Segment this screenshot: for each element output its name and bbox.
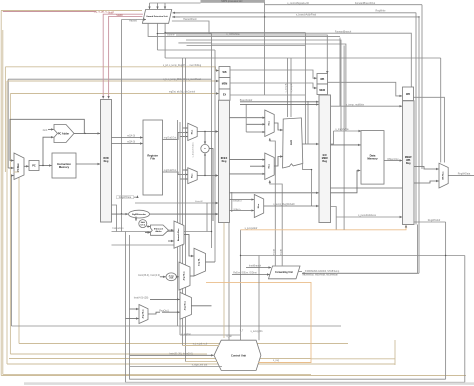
- wire RegWrData feedback right vertical: [464, 256, 466, 383]
- svg-text:Wb Mux: Wb Mux: [443, 171, 445, 180]
- wire hazard flush out: [172, 21, 411, 90]
- wire riser x207: [206, 203, 208, 232]
- svg-text:WB: WB: [406, 93, 410, 96]
- svg-text:RegWrite: RegWrite: [376, 10, 387, 13]
- instruction memory: [52, 153, 76, 178]
- wire fwd unit out right: [298, 271, 302, 273]
- wire x344 vertical: [343, 46, 345, 230]
- svg-text:Hazard Detection Unit: Hazard Detection Unit: [146, 15, 168, 18]
- svg-text:s_f: s_f: [240, 329, 244, 332]
- wire control loop left vertical 2: [2, 30, 4, 374]
- svg-text:FwdB: FwdB: [280, 249, 282, 255]
- svg-text:Jmp SL: Jmp SL: [199, 258, 201, 267]
- jump mux: [179, 262, 190, 290]
- wire bottom beige y354 into control unit: [10, 353, 207, 355]
- wire RegWrite top y12: [173, 12, 416, 14]
- wire bottom beige y364: [7, 363, 395, 365]
- svg-text:Jmp Mux: Jmp Mux: [184, 270, 186, 280]
- wire y245 bundle: [112, 244, 184, 246]
- wire into EXMEM y101: [240, 101, 319, 103]
- register file: [143, 120, 163, 195]
- wire RegWrAddr feedback right vertical: [445, 222, 447, 379]
- wire fwdmuxA in3: [180, 136, 187, 138]
- register PC: [29, 161, 39, 171]
- wire control loop left vertical 4: [6, 81, 8, 364]
- PC adder: [54, 125, 74, 143]
- svg-text:PC Adder: PC Adder: [58, 133, 69, 136]
- wire row y361.6: [186, 361, 218, 363]
- svg-text:Reg: Reg: [104, 160, 109, 163]
- wire EX row out: [230, 94, 305, 96]
- hazard detection unit U_HAZ: [142, 10, 171, 24]
- wire pcsrc in1: [150, 298, 180, 300]
- wire ctrl EX row beige: [10, 93, 218, 95]
- svg-text:s_sign_ext out: s_sign_ext out: [192, 364, 208, 367]
- svg-text:32BitAnd: 32BitAnd: [233, 200, 243, 203]
- wire ALU result bypass to MEMWB: [331, 187, 403, 189]
- svg-text:WB: WB: [223, 71, 227, 74]
- wire control loop left vertical 3: [4, 67, 6, 172]
- wire EXMEM wb to MEMWB wb: [328, 82, 403, 96]
- wire adder to branch mux: [169, 229, 174, 231]
- wire x420.6 vertical: [415, 13, 417, 225]
- wire x424 vertical: [421, 5, 423, 169]
- forward mux A: [188, 123, 197, 140]
- wire y229.8 to MEMWB bottom: [241, 225, 407, 230]
- svg-text:Bubble: Bubble: [167, 34, 175, 37]
- svg-text:s_temp_regWrite: s_temp_regWrite: [346, 103, 365, 106]
- sign extender: [129, 210, 150, 218]
- wire regfile out2: [163, 172, 188, 175]
- wire s_controlSignals top y4.7: [265, 4, 422, 6]
- wire MEMWB to wbmux in2: [414, 181, 439, 183]
- wire fwdmuxB into comparator: [204, 153, 206, 175]
- jump shift ellipse: [166, 273, 176, 281]
- wire control instr input: [130, 354, 214, 356]
- wire s_temp into MEM/WB top: [331, 105, 403, 107]
- wire bottom beige y343: [19, 343, 348, 345]
- wire WB box out right y95: [414, 97, 445, 162]
- svg-text:s_controlSignals+36: s_controlSignals+36: [287, 2, 309, 5]
- wire ALU out up branch: [307, 101, 309, 144]
- wire nest rect1 corner: [178, 42, 211, 44]
- svg-text:s_tempA: s_tempA: [285, 83, 288, 92]
- wire nest y40: [186, 40, 341, 131]
- wire fwdmuxA into comparator: [204, 132, 206, 145]
- svg-text:RsEns, IDExe, IDDest: RsEns, IDExe, IDDest: [233, 272, 257, 275]
- wire WB row across: [230, 70, 317, 78]
- wire x333.5 drop: [331, 131, 334, 144]
- wire jmp mux out: [190, 275, 194, 277]
- wire x287.5 vertical rotated label: [287, 58, 289, 117]
- svg-text:File: File: [150, 157, 155, 161]
- wire pcsrc out: [191, 305, 211, 307]
- svg-text:Reg: Reg: [222, 160, 227, 163]
- wire row y335: [180, 334, 241, 336]
- RegDst mux: [254, 195, 263, 218]
- wire bottom beige y374.4: [1, 375, 466, 377]
- wire nest x215: [214, 50, 216, 262]
- wire bottom beige y371: [3, 373, 311, 375]
- wire ctrl EX row into ID/EX: [8, 78, 211, 80]
- svg-text:Adder: Adder: [155, 230, 161, 233]
- wire regfile out1: [163, 133, 188, 140]
- wire adder out to IF/ID: [74, 132, 100, 134]
- svg-text:Branch Mux: Branch Mux: [178, 228, 180, 241]
- wire bottom gray bus outer: [126, 232, 465, 383]
- svg-text:regOut2Out: regOut2Out: [164, 169, 177, 172]
- wire MEMWB regwraddr out: [414, 221, 446, 223]
- node junction dots: [42, 16, 446, 256]
- control unit: [214, 340, 261, 370]
- svg-text:Control Unit: Control Unit: [231, 353, 246, 357]
- wire hazard bottom drop 1: [148, 23, 340, 36]
- wire vertical bundle x180: [179, 122, 181, 335]
- wire bottom beige y358.5: [9, 358, 311, 360]
- wire EXMEM to DM addr: [331, 144, 361, 146]
- wire DM out: [384, 160, 402, 162]
- wire top beige control band: [1, 10, 142, 12]
- svg-text:Instr(31-26), Instr(5-0): Instr(31-26), Instr(5-0): [169, 352, 193, 355]
- wire into sign extender: [112, 213, 129, 215]
- wire x417 vertical down to y273: [418, 17, 420, 274]
- svg-text:ForwardBranchOut: ForwardBranchOut: [355, 2, 376, 5]
- svg-text:RegWrAddr: RegWrAddr: [428, 219, 441, 222]
- svg-text:FwdA: FwdA: [272, 249, 275, 255]
- svg-text:s_regDst: s_regDst: [181, 333, 191, 336]
- svg-text:shift: shift: [169, 277, 174, 280]
- svg-text:Reg: Reg: [406, 162, 411, 165]
- wire idex side tap: [231, 192, 233, 212]
- svg-text:HazardFlush: HazardFlush: [183, 18, 197, 21]
- svg-text:MIPS processor.circ: MIPS processor.circ: [221, 0, 243, 3]
- wire adder feedback to PC mux: [10, 119, 84, 160]
- svg-text:Extra32: Extra32: [195, 200, 203, 203]
- forward mux B: [188, 168, 197, 184]
- top title bar: [201, 0, 266, 3]
- shift left circle: [139, 220, 147, 228]
- wire pcsrc in2: [162, 311, 180, 313]
- svg-text:PC Mux: PC Mux: [18, 163, 20, 172]
- wire x305.4 vertical: [304, 33, 306, 145]
- svg-text:Reg: Reg: [322, 160, 327, 163]
- wire small mux out: [148, 312, 160, 314]
- wire IM out to IF/ID: [76, 163, 100, 165]
- wire red StallF: [103, 14, 143, 98]
- svg-text:s_temp_RegWrAddr: s_temp_RegWrAddr: [273, 203, 295, 206]
- wire beige below IDEX bar: [223, 223, 225, 338]
- wire fwdmuxB in3: [180, 178, 187, 180]
- pipeline register IF/ID: [101, 100, 112, 223]
- svg-text:WB: WB: [320, 78, 324, 81]
- wire control unit up into IDEX bottom: [228, 223, 230, 340]
- op-amp style ALU: [283, 118, 303, 168]
- wire ALUmuxA inputs: [230, 117, 265, 119]
- wire control s_reg orange out: [206, 282, 311, 362]
- svg-text:s_branchAddrFinal: s_branchAddrFinal: [296, 14, 317, 17]
- wire x240.5 riser: [240, 230, 242, 340]
- wire ALU bottom corner down: [303, 163, 312, 206]
- wire pc into adder: [145, 232, 150, 234]
- wire fwdmuxA in2: [183, 127, 188, 129]
- svg-text:MEM: MEM: [222, 82, 228, 85]
- svg-text:rs2[4:0]: rs2[4:0]: [127, 141, 135, 144]
- wire forward A selector: [270, 138, 276, 265]
- wire x264.5 vertical: [264, 3, 266, 96]
- wire y255.5 long horizontal: [241, 255, 465, 257]
- wire small mux in2: [126, 318, 139, 320]
- svg-text:StallD: StallD: [116, 14, 123, 17]
- svg-text:Jmp Mux: Jmp Mux: [185, 300, 187, 310]
- wire PCmux to PC: [24, 165, 29, 167]
- svg-text:ALU: ALU: [289, 140, 293, 145]
- wire nest rect2 corner: [187, 45, 306, 47]
- data memory: [361, 131, 384, 185]
- svg-text:Memory: Memory: [367, 157, 378, 161]
- wire const 4 into adder: [48, 128, 54, 130]
- wire gray branch feedback vertical: [7, 79, 9, 168]
- wire rs2 into regfile: [112, 143, 143, 145]
- svg-text:RegWrData: RegWrData: [458, 173, 471, 176]
- wire PC up to adder: [43, 137, 54, 165]
- svg-text:Sign Extender: Sign Extender: [132, 213, 146, 216]
- svg-text:EX: EX: [223, 94, 227, 97]
- svg-text:RegOut1: RegOut1: [159, 309, 169, 312]
- svg-text:rs1[4:0]: rs1[4:0]: [127, 135, 135, 138]
- svg-text:s_jumpAddr: s_jumpAddr: [245, 227, 258, 230]
- svg-text:Forwarding Unit: Forwarding Unit: [275, 271, 293, 274]
- wire fwd unit in2: [232, 274, 270, 276]
- MEM/WB control box WB: [403, 87, 414, 101]
- wire ALU out: [302, 143, 318, 145]
- wire regdst in1: [230, 199, 254, 201]
- wire IF/ID instr down x116.5: [112, 205, 117, 232]
- wire hazard top in 3: [164, 3, 166, 9]
- branch adder: [151, 225, 169, 235]
- wire shift to adder: [147, 226, 150, 228]
- wire s_temp_Rs riser: [258, 256, 260, 341]
- svg-text:Instruction: Instruction: [112, 227, 124, 230]
- wire beige x10.4: [9, 94, 11, 355]
- wire s_branchAddrFinal y16.5: [172, 16, 419, 18]
- wire regdst in2: [230, 210, 254, 212]
- wire bottom gray bus inner: [130, 235, 446, 379]
- wire MEM row across: [230, 83, 317, 88]
- wire ctrl WB row into ID/EX: [5, 67, 218, 71]
- wire hazard bottom drop 2: [157, 23, 211, 33]
- wire IF/ID instr down x121.5: [121, 20, 123, 232]
- EX/MEM control boxes: [317, 74, 328, 95]
- wire comparator out: [209, 149, 213, 221]
- svg-text:s_penultAddress: s_penultAddress: [358, 214, 377, 217]
- wire control to beige riser: [311, 358, 395, 360]
- wire jump shift to jmp mux: [176, 276, 178, 278]
- wire rs1 into regfile: [112, 137, 143, 139]
- svg-text:s_j, s_jal, s_b: s_j, s_jal, s_b: [193, 343, 208, 346]
- wire vertical bundle x177.5: [177, 120, 179, 326]
- wire nest y44 riser x348: [212, 44, 346, 131]
- wire fwdmuxB out to IDEX: [197, 175, 218, 177]
- wire sign extender out to IDEX: [150, 213, 219, 215]
- wire y231.5 bundle: [112, 231, 212, 233]
- wire forward B selector: [270, 180, 282, 265]
- wire y55.3 to WB mux riser: [440, 58, 442, 163]
- wire MEMWB to wbmux in1: [414, 167, 439, 170]
- svg-text:s_jal: s_jal: [227, 335, 232, 338]
- wire wbmux out: [448, 175, 474, 177]
- wire vertical bundle x185.5: [185, 58, 187, 362]
- wire hazard top in 2: [157, 3, 159, 9]
- wire ctrl MEM row into ID/EX: [7, 80, 219, 82]
- wire branch mux out to jump: [184, 235, 194, 256]
- bottom scrollbar strip: [24, 382, 474, 385]
- svg-text:StallF: StallF: [108, 12, 115, 15]
- jump trapezoid: [194, 248, 206, 276]
- wire fwd unit in1: [246, 267, 271, 269]
- wire beige into pcmux: [14, 171, 19, 173]
- wire regwrdata arrow into regfile: [134, 196, 138, 198]
- wire fwdmuxA out to IDEX: [197, 131, 218, 133]
- svg-text:s_tempB: s_tempB: [290, 83, 293, 92]
- wire y203 into IDEX: [135, 202, 218, 204]
- pipeline register EX/MEM: [319, 95, 331, 223]
- svg-text:MEM: MEM: [319, 89, 325, 92]
- wire regdst out: [264, 205, 319, 207]
- wire jump out: [206, 261, 216, 263]
- wire ALUmuxB out: [274, 157, 283, 167]
- wire x291 vertical: [290, 58, 292, 117]
- wire nest y58: [165, 33, 441, 59]
- wire beige feedback vertical x19: [18, 172, 20, 344]
- wire hazard rs label: [122, 19, 147, 21]
- comparator circle: [201, 144, 209, 152]
- svg-text:PC: PC: [32, 165, 36, 168]
- pipeline register ID/EX: [219, 100, 230, 222]
- wire hazard top in 1: [149, 3, 151, 9]
- svg-text:Instr(4:0)-(28): Instr(4:0)-(28): [134, 297, 149, 300]
- wire s_memWrite into data memory: [334, 130, 362, 132]
- svg-text:Hazard: Hazard: [129, 20, 137, 23]
- wire WB mux: [439, 163, 448, 188]
- wire beige vertical near control x395: [394, 340, 396, 365]
- wire hazard top feed y3: [150, 2, 201, 4]
- svg-text:s_memWrite: s_memWrite: [335, 128, 349, 131]
- wire hazard input arrowheads: [173, 12, 180, 14]
- wire gray branch feedback: [10, 176, 12, 327]
- wire PC to IM: [39, 165, 52, 167]
- svg-text:Memory: Memory: [59, 165, 70, 169]
- branch mux: [174, 221, 184, 248]
- svg-text:2or4: 2or4: [43, 129, 48, 132]
- wire control y344.5 out: [183, 345, 220, 347]
- small mux bottom left: [139, 305, 148, 324]
- wire into jump shift: [160, 276, 166, 278]
- wire nest y50: [157, 34, 215, 50]
- forwarding unit: [269, 266, 301, 279]
- ALU mux B: [265, 153, 274, 180]
- ALU mux A: [265, 110, 274, 137]
- wire y273.3 into forwarding unit: [302, 272, 419, 274]
- wire EXMEM right jog down: [331, 207, 337, 230]
- wire small mux in1: [130, 308, 139, 310]
- wire B value to EXMEM y193.3: [230, 192, 319, 194]
- wire red StallD: [109, 16, 143, 98]
- wire hazard bottom drop 3: [165, 23, 305, 32]
- svg-text:regOut1Out: regOut1Out: [164, 137, 177, 140]
- wire control sign ext out: [130, 366, 222, 368]
- ID/EX control boxes WB MEM EX: [219, 67, 230, 101]
- svg-text:Instr(25-0), Instr(4:0): Instr(25-0), Instr(4:0): [138, 274, 160, 277]
- svg-text:Jmp Mux: Jmp Mux: [143, 308, 145, 318]
- wire nest y35: [176, 35, 327, 74]
- wire gray bottom loop y326: [11, 325, 341, 327]
- wire ALUmuxB inputs: [230, 159, 265, 161]
- svg-text:s_reg: s_reg: [273, 359, 280, 362]
- wire branch mux in2: [168, 240, 174, 242]
- wire control loop left vertical 1: [0, 11, 2, 376]
- wire signext to shift: [135, 217, 137, 221]
- wire x340 vertical: [339, 38, 341, 107]
- wire EXMEM to DM wdata: [331, 171, 361, 193]
- wire x417.5 riser from y273: [417, 225, 419, 274]
- svg-text:s_branchTaken: s_branchTaken: [192, 142, 195, 158]
- wire fwdmuxB in2: [183, 169, 188, 171]
- svg-text:DMemOut: DMemOut: [388, 158, 399, 161]
- wire nest x211.5: [211, 34, 213, 248]
- svg-text:s_ctrlBubble: s_ctrlBubble: [226, 33, 240, 36]
- svg-text:MEMWBul, MEMWBl, MEMWBal: MEMWBul, MEMWBl, MEMWBal: [302, 274, 338, 277]
- wire pcmux input 2: [8, 167, 13, 169]
- wire y273.3 left segment: [302, 272, 418, 274]
- wire into EXMEM y105.5: [240, 103, 319, 105]
- PC mux M_PC: [14, 153, 24, 180]
- pipeline register MEM/WB: [403, 101, 415, 225]
- svg-text:InstrBranch: InstrBranch: [249, 265, 262, 268]
- wire ALUmuxA out: [274, 123, 283, 130]
- wire vertical bundle x182.5: [182, 58, 184, 346]
- pc source mux: [180, 292, 191, 319]
- wire pcmux input 3: [11, 175, 13, 177]
- svg-text:s_temp_Rs: s_temp_Rs: [250, 330, 263, 333]
- wire red left feed: [3, 11, 96, 13]
- wire s_penultAddress into MEMWB: [336, 216, 402, 218]
- svg-text:BranchAddr: BranchAddr: [240, 99, 253, 102]
